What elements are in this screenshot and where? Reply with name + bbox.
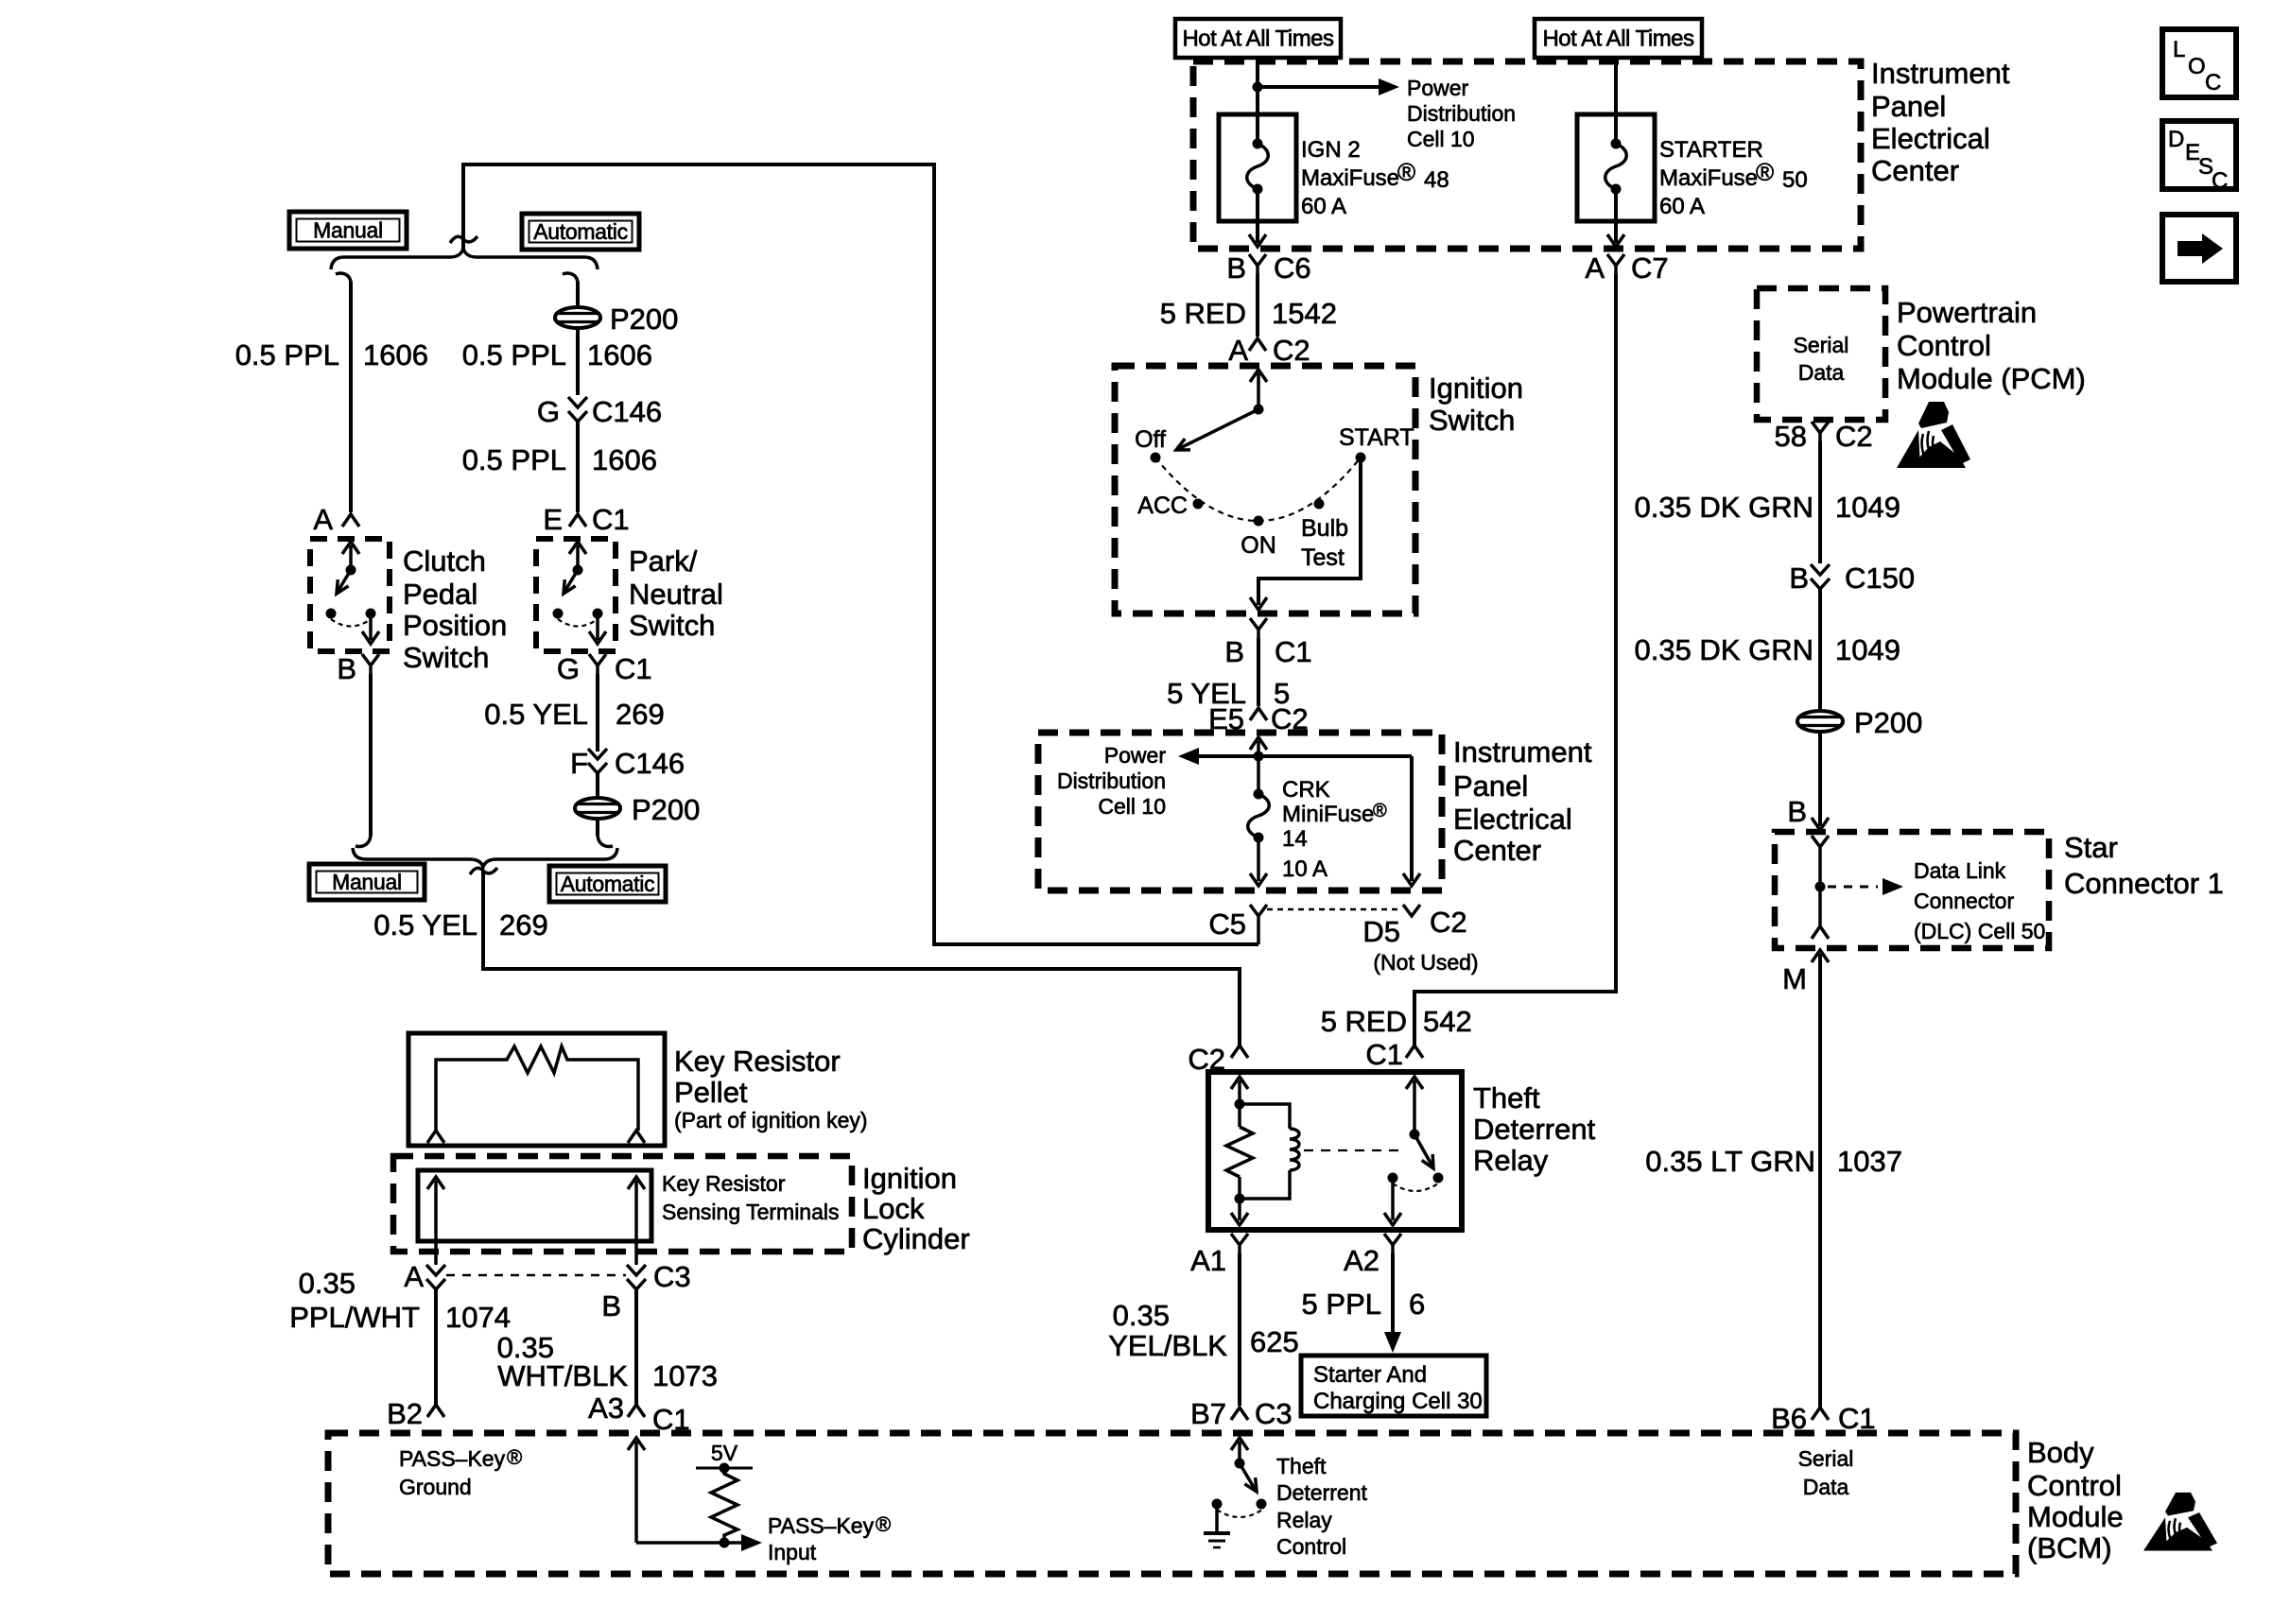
svg-text:E: E xyxy=(543,503,563,536)
svg-text:269: 269 xyxy=(499,908,548,942)
svg-text:48: 48 xyxy=(1424,167,1449,193)
svg-text:Control: Control xyxy=(2027,1469,2122,1502)
svg-text:(Part of ignition key): (Part of ignition key) xyxy=(674,1108,868,1132)
svg-text:B: B xyxy=(337,652,356,685)
svg-text:5V: 5V xyxy=(711,1441,738,1465)
svg-text:A2: A2 xyxy=(1344,1244,1379,1277)
svg-text:C3: C3 xyxy=(653,1260,691,1293)
svg-text:Ground: Ground xyxy=(399,1475,472,1499)
svg-text:Electrical: Electrical xyxy=(1871,122,1990,155)
svg-text:0.35: 0.35 xyxy=(299,1267,356,1300)
svg-text:C150: C150 xyxy=(1845,561,1915,595)
svg-text:YEL/BLK: YEL/BLK xyxy=(1108,1329,1227,1362)
svg-text:1074: 1074 xyxy=(445,1301,511,1334)
svg-text:Star: Star xyxy=(2064,831,2118,864)
svg-text:0.5 PPL: 0.5 PPL xyxy=(462,338,566,371)
svg-text:B7: B7 xyxy=(1190,1397,1226,1430)
svg-text:Data Link: Data Link xyxy=(1914,858,2006,883)
svg-text:STARTER: STARTER xyxy=(1659,137,1763,163)
svg-text:P200: P200 xyxy=(632,793,700,826)
svg-text:0.5 YEL: 0.5 YEL xyxy=(373,908,477,942)
svg-text:0.5 PPL: 0.5 PPL xyxy=(235,338,339,371)
svg-text:C3: C3 xyxy=(1255,1397,1293,1430)
svg-text:Instrument: Instrument xyxy=(1871,57,2010,90)
svg-text:Center: Center xyxy=(1453,834,1541,867)
svg-text:Ignition: Ignition xyxy=(862,1162,957,1195)
svg-text:Sensing Terminals: Sensing Terminals xyxy=(662,1200,840,1224)
svg-text:START: START xyxy=(1339,424,1414,451)
svg-text:C2: C2 xyxy=(1835,420,1873,453)
svg-text:WHT/BLK: WHT/BLK xyxy=(497,1359,628,1392)
svg-text:542: 542 xyxy=(1423,1005,1472,1038)
svg-text:C1: C1 xyxy=(615,652,652,685)
svg-text:C1: C1 xyxy=(1365,1038,1403,1071)
svg-text:A: A xyxy=(404,1260,424,1293)
svg-text:PASS–Key: PASS–Key xyxy=(399,1446,506,1471)
svg-text:L: L xyxy=(2173,37,2185,62)
svg-text:Input: Input xyxy=(768,1540,817,1564)
svg-text:Connector: Connector xyxy=(1914,889,2014,913)
svg-text:G: G xyxy=(537,395,560,428)
svg-text:Theft: Theft xyxy=(1473,1081,1540,1114)
svg-text:Center: Center xyxy=(1871,154,1959,187)
svg-text:B: B xyxy=(1224,635,1244,668)
svg-text:1542: 1542 xyxy=(1272,297,1337,330)
svg-text:Lock: Lock xyxy=(862,1192,925,1225)
svg-text:Automatic: Automatic xyxy=(533,219,628,244)
svg-text:®: ® xyxy=(1397,158,1415,186)
svg-text:Theft: Theft xyxy=(1276,1454,1327,1478)
svg-text:Bulb: Bulb xyxy=(1301,515,1348,542)
svg-text:Park/: Park/ xyxy=(629,544,698,578)
svg-text:Deterrent: Deterrent xyxy=(1473,1113,1596,1146)
svg-text:®: ® xyxy=(507,1445,522,1469)
svg-text:0.5 PPL: 0.5 PPL xyxy=(462,443,566,476)
svg-text:0.35 LT GRN: 0.35 LT GRN xyxy=(1645,1145,1815,1178)
svg-text:B2: B2 xyxy=(387,1397,423,1430)
svg-text:Test: Test xyxy=(1301,544,1345,571)
svg-text:M: M xyxy=(1782,962,1807,995)
svg-text:1037: 1037 xyxy=(1837,1145,1902,1178)
svg-text:Key Resistor: Key Resistor xyxy=(674,1045,841,1078)
svg-text:P200: P200 xyxy=(1854,706,1922,739)
svg-text:1049: 1049 xyxy=(1835,633,1900,666)
svg-text:CRK: CRK xyxy=(1282,777,1330,803)
svg-text:Cell 10: Cell 10 xyxy=(1098,794,1166,819)
svg-text:Switch: Switch xyxy=(1429,404,1515,437)
svg-text:Hot At All Times: Hot At All Times xyxy=(1182,26,1334,52)
svg-text:Cell 10: Cell 10 xyxy=(1407,127,1475,151)
svg-text:Data: Data xyxy=(1798,360,1845,385)
svg-text:Serial: Serial xyxy=(1798,1446,1854,1471)
svg-text:Serial: Serial xyxy=(1794,333,1849,357)
svg-text:PPL/WHT: PPL/WHT xyxy=(289,1301,420,1334)
svg-text:5 PPL: 5 PPL xyxy=(1302,1287,1381,1321)
svg-text:Body: Body xyxy=(2027,1436,2094,1469)
svg-text:1049: 1049 xyxy=(1835,491,1900,524)
svg-text:0.5 YEL: 0.5 YEL xyxy=(484,698,588,731)
svg-text:269: 269 xyxy=(616,698,665,731)
svg-text:Electrical: Electrical xyxy=(1453,803,1572,836)
svg-text:C: C xyxy=(2212,168,2228,194)
svg-text:1073: 1073 xyxy=(652,1359,718,1392)
svg-text:1606: 1606 xyxy=(592,443,657,476)
svg-text:Module: Module xyxy=(2027,1500,2124,1533)
svg-text:Power: Power xyxy=(1407,76,1469,100)
svg-text:60 A: 60 A xyxy=(1301,194,1346,219)
svg-text:Power: Power xyxy=(1104,743,1167,768)
svg-text:Control: Control xyxy=(1276,1534,1346,1559)
svg-text:B: B xyxy=(601,1289,621,1322)
svg-text:0.35 DK GRN: 0.35 DK GRN xyxy=(1634,633,1813,666)
svg-text:Position: Position xyxy=(403,609,507,642)
svg-text:Manual: Manual xyxy=(332,870,402,894)
svg-text:C1: C1 xyxy=(1275,635,1312,668)
svg-text:C146: C146 xyxy=(615,747,685,780)
svg-text:Relay: Relay xyxy=(1473,1144,1549,1177)
svg-text:Key Resistor: Key Resistor xyxy=(662,1171,786,1196)
svg-text:Connector 1: Connector 1 xyxy=(2064,867,2224,900)
svg-text:Powertrain: Powertrain xyxy=(1897,296,2037,329)
svg-text:1606: 1606 xyxy=(363,338,428,371)
svg-text:®: ® xyxy=(876,1512,891,1536)
svg-text:0.35 DK GRN: 0.35 DK GRN xyxy=(1634,491,1813,524)
svg-text:G: G xyxy=(557,652,580,685)
svg-text:A: A xyxy=(1228,334,1248,367)
svg-text:Hot At All Times: Hot At All Times xyxy=(1542,26,1694,52)
svg-text:O: O xyxy=(2188,54,2206,79)
svg-text:1606: 1606 xyxy=(587,338,652,371)
svg-text:Distribution: Distribution xyxy=(1057,769,1166,793)
svg-text:F: F xyxy=(570,747,588,780)
svg-text:C2: C2 xyxy=(1273,334,1310,367)
svg-text:A: A xyxy=(313,503,333,536)
svg-text:Automatic: Automatic xyxy=(561,872,655,896)
svg-text:MiniFuse: MiniFuse xyxy=(1282,802,1374,827)
svg-text:Cylinder: Cylinder xyxy=(862,1222,970,1255)
svg-text:A: A xyxy=(1585,251,1605,285)
svg-text:14: 14 xyxy=(1282,826,1308,852)
svg-text:625: 625 xyxy=(1250,1325,1299,1358)
svg-text:Data: Data xyxy=(1803,1475,1849,1499)
svg-text:C1: C1 xyxy=(592,503,630,536)
svg-text:50: 50 xyxy=(1782,167,1808,193)
svg-text:Panel: Panel xyxy=(1453,769,1528,803)
svg-text:B: B xyxy=(1787,795,1807,828)
svg-text:B: B xyxy=(1789,561,1809,595)
svg-text:Switch: Switch xyxy=(403,641,489,674)
svg-text:Starter And: Starter And xyxy=(1313,1362,1427,1388)
svg-text:C7: C7 xyxy=(1631,251,1669,285)
svg-text:Ignition: Ignition xyxy=(1429,371,1523,405)
svg-text:Deterrent: Deterrent xyxy=(1276,1480,1367,1505)
svg-text:Distribution: Distribution xyxy=(1407,101,1516,126)
svg-text:6: 6 xyxy=(1409,1287,1425,1321)
svg-text:Control: Control xyxy=(1897,329,1991,362)
svg-text:C146: C146 xyxy=(592,395,662,428)
svg-text:Module (PCM): Module (PCM) xyxy=(1897,362,2086,395)
svg-text:Instrument: Instrument xyxy=(1453,735,1592,769)
svg-text:®: ® xyxy=(1373,801,1387,821)
svg-text:Relay: Relay xyxy=(1276,1508,1332,1532)
svg-text:5 RED: 5 RED xyxy=(1321,1005,1407,1038)
svg-text:(BCM): (BCM) xyxy=(2027,1531,2112,1564)
svg-text:(DLC) Cell 50: (DLC) Cell 50 xyxy=(1914,919,2045,943)
svg-text:Switch: Switch xyxy=(629,609,715,642)
svg-text:(Not Used): (Not Used) xyxy=(1373,950,1478,975)
svg-text:5 RED: 5 RED xyxy=(1160,297,1246,330)
svg-text:P200: P200 xyxy=(610,302,678,336)
svg-text:MaxiFuse: MaxiFuse xyxy=(1659,165,1758,191)
svg-text:Manual: Manual xyxy=(313,218,383,243)
svg-text:Charging Cell 30: Charging Cell 30 xyxy=(1313,1389,1483,1414)
svg-text:Pellet: Pellet xyxy=(674,1076,748,1109)
svg-text:Neutral: Neutral xyxy=(629,578,723,611)
svg-text:Pedal: Pedal xyxy=(403,578,477,611)
svg-text:A3: A3 xyxy=(588,1391,624,1425)
svg-text:PASS–Key: PASS–Key xyxy=(768,1513,875,1538)
svg-text:C: C xyxy=(2205,70,2221,95)
svg-text:C6: C6 xyxy=(1274,251,1311,285)
svg-text:ON: ON xyxy=(1241,532,1276,559)
svg-text:®: ® xyxy=(1756,158,1774,186)
svg-text:C5: C5 xyxy=(1208,907,1246,941)
svg-text:A1: A1 xyxy=(1190,1244,1226,1277)
svg-text:B: B xyxy=(1226,251,1246,285)
svg-text:D: D xyxy=(2168,127,2184,152)
svg-text:ACC: ACC xyxy=(1137,492,1188,519)
svg-text:MaxiFuse: MaxiFuse xyxy=(1301,165,1399,191)
svg-text:C2: C2 xyxy=(1430,906,1467,939)
svg-text:0.35: 0.35 xyxy=(1113,1299,1170,1332)
svg-text:58: 58 xyxy=(1775,420,1807,453)
svg-text:Panel: Panel xyxy=(1871,90,1946,123)
svg-text:Clutch: Clutch xyxy=(403,544,486,578)
svg-text:D5: D5 xyxy=(1362,915,1400,948)
svg-text:IGN 2: IGN 2 xyxy=(1301,137,1361,163)
svg-text:10 A: 10 A xyxy=(1282,856,1327,882)
svg-text:Off: Off xyxy=(1135,426,1166,453)
svg-text:60 A: 60 A xyxy=(1659,194,1705,219)
